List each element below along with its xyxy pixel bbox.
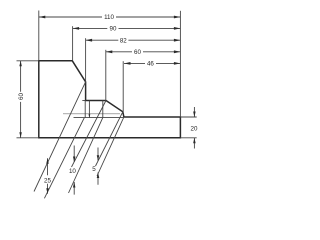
dimension line 82 [86,39,181,41]
oblique extension line F [97,117,124,176]
svg-text:25: 25 [44,177,51,184]
extension line surface stub [82,100,85,102]
extension line mid-surface horizontal [63,113,120,115]
extension line short vertical b [102,101,104,118]
extension line step-face vertical [85,38,87,82]
extension line top-left vertical [38,11,40,61]
svg-text:110: 110 [104,14,114,21]
svg-text:90: 90 [110,26,117,33]
dimension 20 arrows [193,107,195,149]
dimension line 60 top [106,51,181,53]
svg-text:5: 5 [92,166,96,173]
extension line chamfer-start vertical [72,26,74,61]
dimension 25 line [47,158,49,194]
extension line right-edge vertical [179,11,181,117]
dimension line 110 [39,16,181,18]
extension line right-dim bottom horizontal [180,137,196,139]
extension line base-top leftward horizontal [74,117,124,119]
svg-text:10: 10 [69,168,76,175]
extension line left-dim bottom horizontal [17,137,39,139]
part outline [39,61,181,138]
extension line surface-right vertical [105,50,107,101]
oblique extension line E [96,112,123,166]
svg-text:60: 60 [18,93,25,100]
dimension 5 arrows [97,148,99,185]
oblique extension line D [69,118,103,193]
dimension 10 arrows [73,146,75,195]
oblique extension line B [44,118,84,199]
extension line right-dim top horizontal [180,116,196,118]
extension line left-dim top horizontal [17,60,39,62]
svg-text:46: 46 [147,61,154,68]
dimension line 46 [124,62,180,64]
extension line short vertical a with arrow [88,101,90,118]
svg-text:60: 60 [134,49,141,56]
svg-text:82: 82 [120,37,127,44]
oblique extension line A [34,82,86,192]
extension line vertex-46 vertical [122,61,124,112]
dimension line 90 [73,27,181,29]
svg-text:20: 20 [191,126,198,133]
dimension line 60 left [20,61,22,138]
extension line step-face downward vertical [84,101,86,118]
oblique extension line C [72,101,107,168]
